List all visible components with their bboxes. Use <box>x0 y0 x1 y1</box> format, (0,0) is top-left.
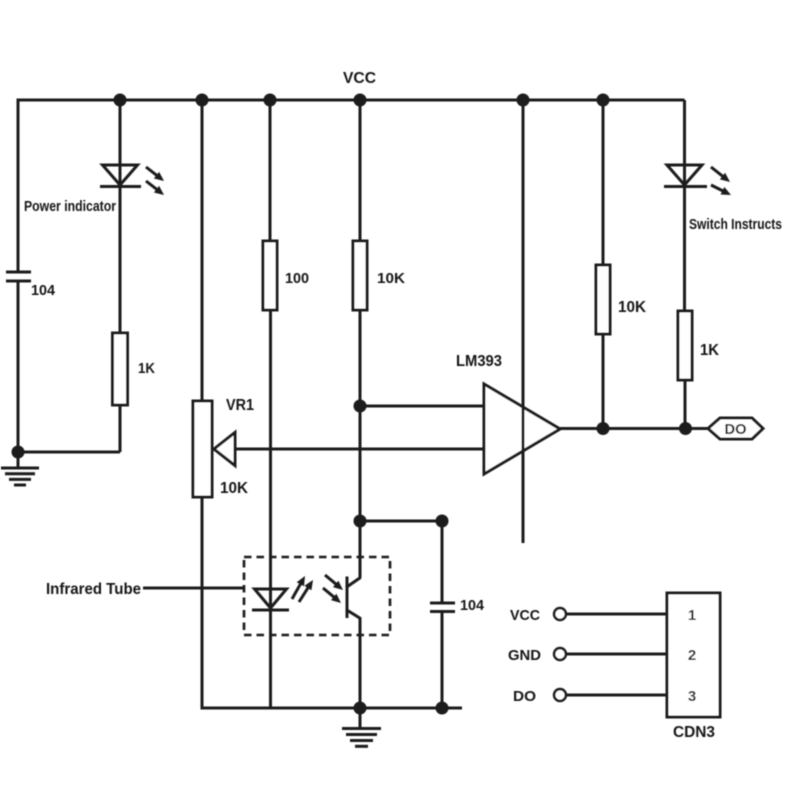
node junction dot top rail x=120 <box>114 94 127 107</box>
transistor Q1 phototransistor <box>323 521 361 708</box>
op-amp U1 LM393 comparator <box>484 384 560 474</box>
wire infrared LED cathode to bottom rail <box>269 610 272 708</box>
wire left branch lower segment <box>17 281 20 452</box>
wire label leader to optocoupler box <box>143 587 244 590</box>
wire R5 to output line <box>684 380 687 429</box>
svg-text:GND: GND <box>508 647 541 664</box>
svg-text:100: 100 <box>285 270 309 287</box>
wire collector node to C2 <box>360 520 442 523</box>
svg-text:1: 1 <box>688 607 696 624</box>
wire from rail to VR1 <box>201 100 204 401</box>
wire power LED to R1 <box>119 187 122 334</box>
node junction dot C2 bottom <box>436 702 449 715</box>
svg-text:1K: 1K <box>700 342 719 359</box>
LED D3 switch instructs <box>664 165 731 195</box>
svg-text:CDN3: CDN3 <box>673 724 715 741</box>
node junction dot emitter to bottom rail <box>354 702 367 715</box>
connector CDN3 body <box>667 593 720 717</box>
node junction dot top rail x=270 <box>264 94 277 107</box>
node junction dot top rail x=360 <box>354 94 367 107</box>
wire left branch upper segment <box>17 99 20 274</box>
node junction dot collector node <box>354 515 367 528</box>
node VCC pin terminal <box>554 608 566 620</box>
wire GND pin to connector <box>567 653 668 656</box>
wire DO pin to connector <box>567 694 668 697</box>
wire R1 to bottom-left wire <box>119 405 122 452</box>
node DO output flag <box>708 418 763 439</box>
svg-text:VCC: VCC <box>510 607 540 624</box>
wire from rail to R3 <box>359 100 362 241</box>
potentiometer VR1 body <box>193 401 212 497</box>
wire right branch from rail down <box>683 100 686 187</box>
node junction dot output x=685 <box>679 422 692 435</box>
svg-text:3: 3 <box>688 688 696 705</box>
wire input node down to collector node <box>359 406 362 521</box>
node junction dot output x=603 <box>597 422 610 435</box>
svg-text:104: 104 <box>460 597 485 614</box>
svg-text:10K: 10K <box>377 270 405 287</box>
wire from rail to R4 <box>602 100 605 265</box>
svg-text:104: 104 <box>31 282 56 299</box>
wire bottom rail of sensor section <box>202 707 462 710</box>
svg-text:DO: DO <box>513 688 536 705</box>
wire VCC top rail <box>17 99 685 102</box>
ground GND1 (left) <box>1 452 39 485</box>
wire R2 to infrared LED <box>269 310 272 610</box>
svg-text:2: 2 <box>688 647 696 664</box>
LED D1 power indicator <box>100 165 164 195</box>
svg-text:Power indicator: Power indicator <box>24 198 116 215</box>
node junction dot top rail x=603 <box>597 94 610 107</box>
svg-text:VR1: VR1 <box>226 397 254 414</box>
wire VR1 wiper to comparator inverting input <box>235 448 484 451</box>
svg-text:Infrared Tube: Infrared Tube <box>46 581 141 598</box>
resistor R5 1K (right) <box>678 311 692 380</box>
svg-text:10K: 10K <box>220 480 248 497</box>
node DO pin terminal <box>554 689 566 701</box>
wire R3 to non-inverting input node <box>359 310 362 406</box>
node junction dot top rail x=202 <box>196 94 209 107</box>
optocoupler dashed box <box>244 557 390 635</box>
resistor R4 10K (right) <box>596 265 610 334</box>
node junction dot left ground <box>12 446 25 459</box>
wire from rail to R2 <box>269 100 272 241</box>
node junction dot non-inverting input <box>354 400 367 413</box>
wire LED to R5 <box>683 187 686 312</box>
resistor R1 1K (left) <box>113 333 128 405</box>
capacitor C1 104 (left) <box>6 272 31 281</box>
wire R4 to output line <box>602 334 605 429</box>
node junction dot top rail x=523 <box>517 94 530 107</box>
svg-text:10K: 10K <box>618 299 646 316</box>
wire comparator power line <box>522 100 525 543</box>
wire VCC pin to connector <box>567 613 668 616</box>
wire bottom-left horizontal <box>18 451 120 454</box>
resistor R2 100 <box>263 241 277 310</box>
node junction dot C2 top <box>436 515 449 528</box>
svg-text:LM393: LM393 <box>456 353 502 370</box>
wire VR1 bottom to ground rail <box>201 497 204 710</box>
svg-text:Switch Instructs: Switch Instructs <box>689 216 782 233</box>
svg-text:VCC: VCC <box>343 70 376 87</box>
potentiometer VR1 wiper arrow <box>214 433 235 466</box>
LED D2 infrared emitter <box>252 576 313 610</box>
svg-text:DO: DO <box>725 421 747 438</box>
svg-text:1K: 1K <box>138 360 155 377</box>
wire from rail to power LED <box>119 100 122 187</box>
wire comparator output line <box>560 427 707 430</box>
wire to comparator non-inverting input <box>360 405 484 408</box>
capacitor C2 104 (right of optocoupler) <box>430 521 455 708</box>
ground GND2 (bottom) <box>342 708 381 746</box>
resistor R3 10K (middle) <box>353 241 367 310</box>
node GND pin terminal <box>554 648 566 660</box>
